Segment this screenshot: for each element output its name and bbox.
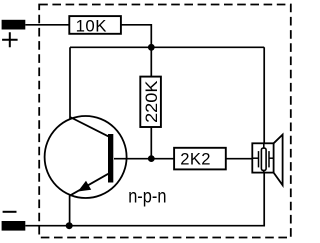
wire: bottom rail xyxy=(25,173,264,226)
speaker LS1 crystal element xyxy=(261,148,266,170)
svg-text:n-p-n: n-p-n xyxy=(128,185,166,207)
minus sign xyxy=(3,211,17,213)
wire: R2 bottom to node B xyxy=(150,127,152,159)
wire: collector drop xyxy=(69,47,71,118)
svg-text:2K2: 2K2 xyxy=(180,149,210,168)
transistor Q1 emitter lead xyxy=(70,174,109,196)
resistor R3 2K2 xyxy=(174,148,226,170)
speaker LS1 body xyxy=(252,143,273,172)
speaker LS1 left plate xyxy=(258,151,260,167)
speaker LS1 cone xyxy=(274,135,283,186)
wire: base wire from Q1 to R3 xyxy=(114,158,174,160)
wire: + terminal to R1 xyxy=(25,24,69,26)
svg-text:10K: 10K xyxy=(76,17,107,36)
speaker LS1 bottom inner stub xyxy=(263,170,265,172)
dashed enclosure border xyxy=(39,5,291,238)
speaker LS1 left lead xyxy=(252,157,258,159)
transistor Q1 emitter arrowhead xyxy=(78,181,91,192)
resistor R2 220K xyxy=(140,77,161,127)
speaker LS1 right lead xyxy=(269,157,274,159)
wire: R1 to node A xyxy=(121,25,151,48)
svg-text:220K: 220K xyxy=(142,80,161,123)
wire: R3 to speaker xyxy=(226,158,253,160)
speaker LS1 top inner stub xyxy=(263,143,265,148)
plus sign xyxy=(2,32,18,47)
node B junction dot xyxy=(148,155,155,162)
wire: main horizontal rail at y=47 xyxy=(70,46,264,48)
node A junction dot xyxy=(148,44,155,51)
battery terminal + (top left) xyxy=(2,20,26,30)
transistor Q1 collector lead xyxy=(70,117,108,136)
wire: rail to speaker top xyxy=(263,47,265,143)
speaker LS1 right plate xyxy=(268,151,270,167)
node C junction dot xyxy=(66,222,73,229)
transistor Q1 circle xyxy=(45,116,127,198)
transistor Q1 base bar xyxy=(108,134,113,183)
battery terminal - (bottom left) xyxy=(2,221,26,231)
wire: emitter to bottom rail xyxy=(69,195,71,225)
wire: node A to R2 top xyxy=(150,47,152,76)
resistor R1 10K xyxy=(69,16,121,35)
